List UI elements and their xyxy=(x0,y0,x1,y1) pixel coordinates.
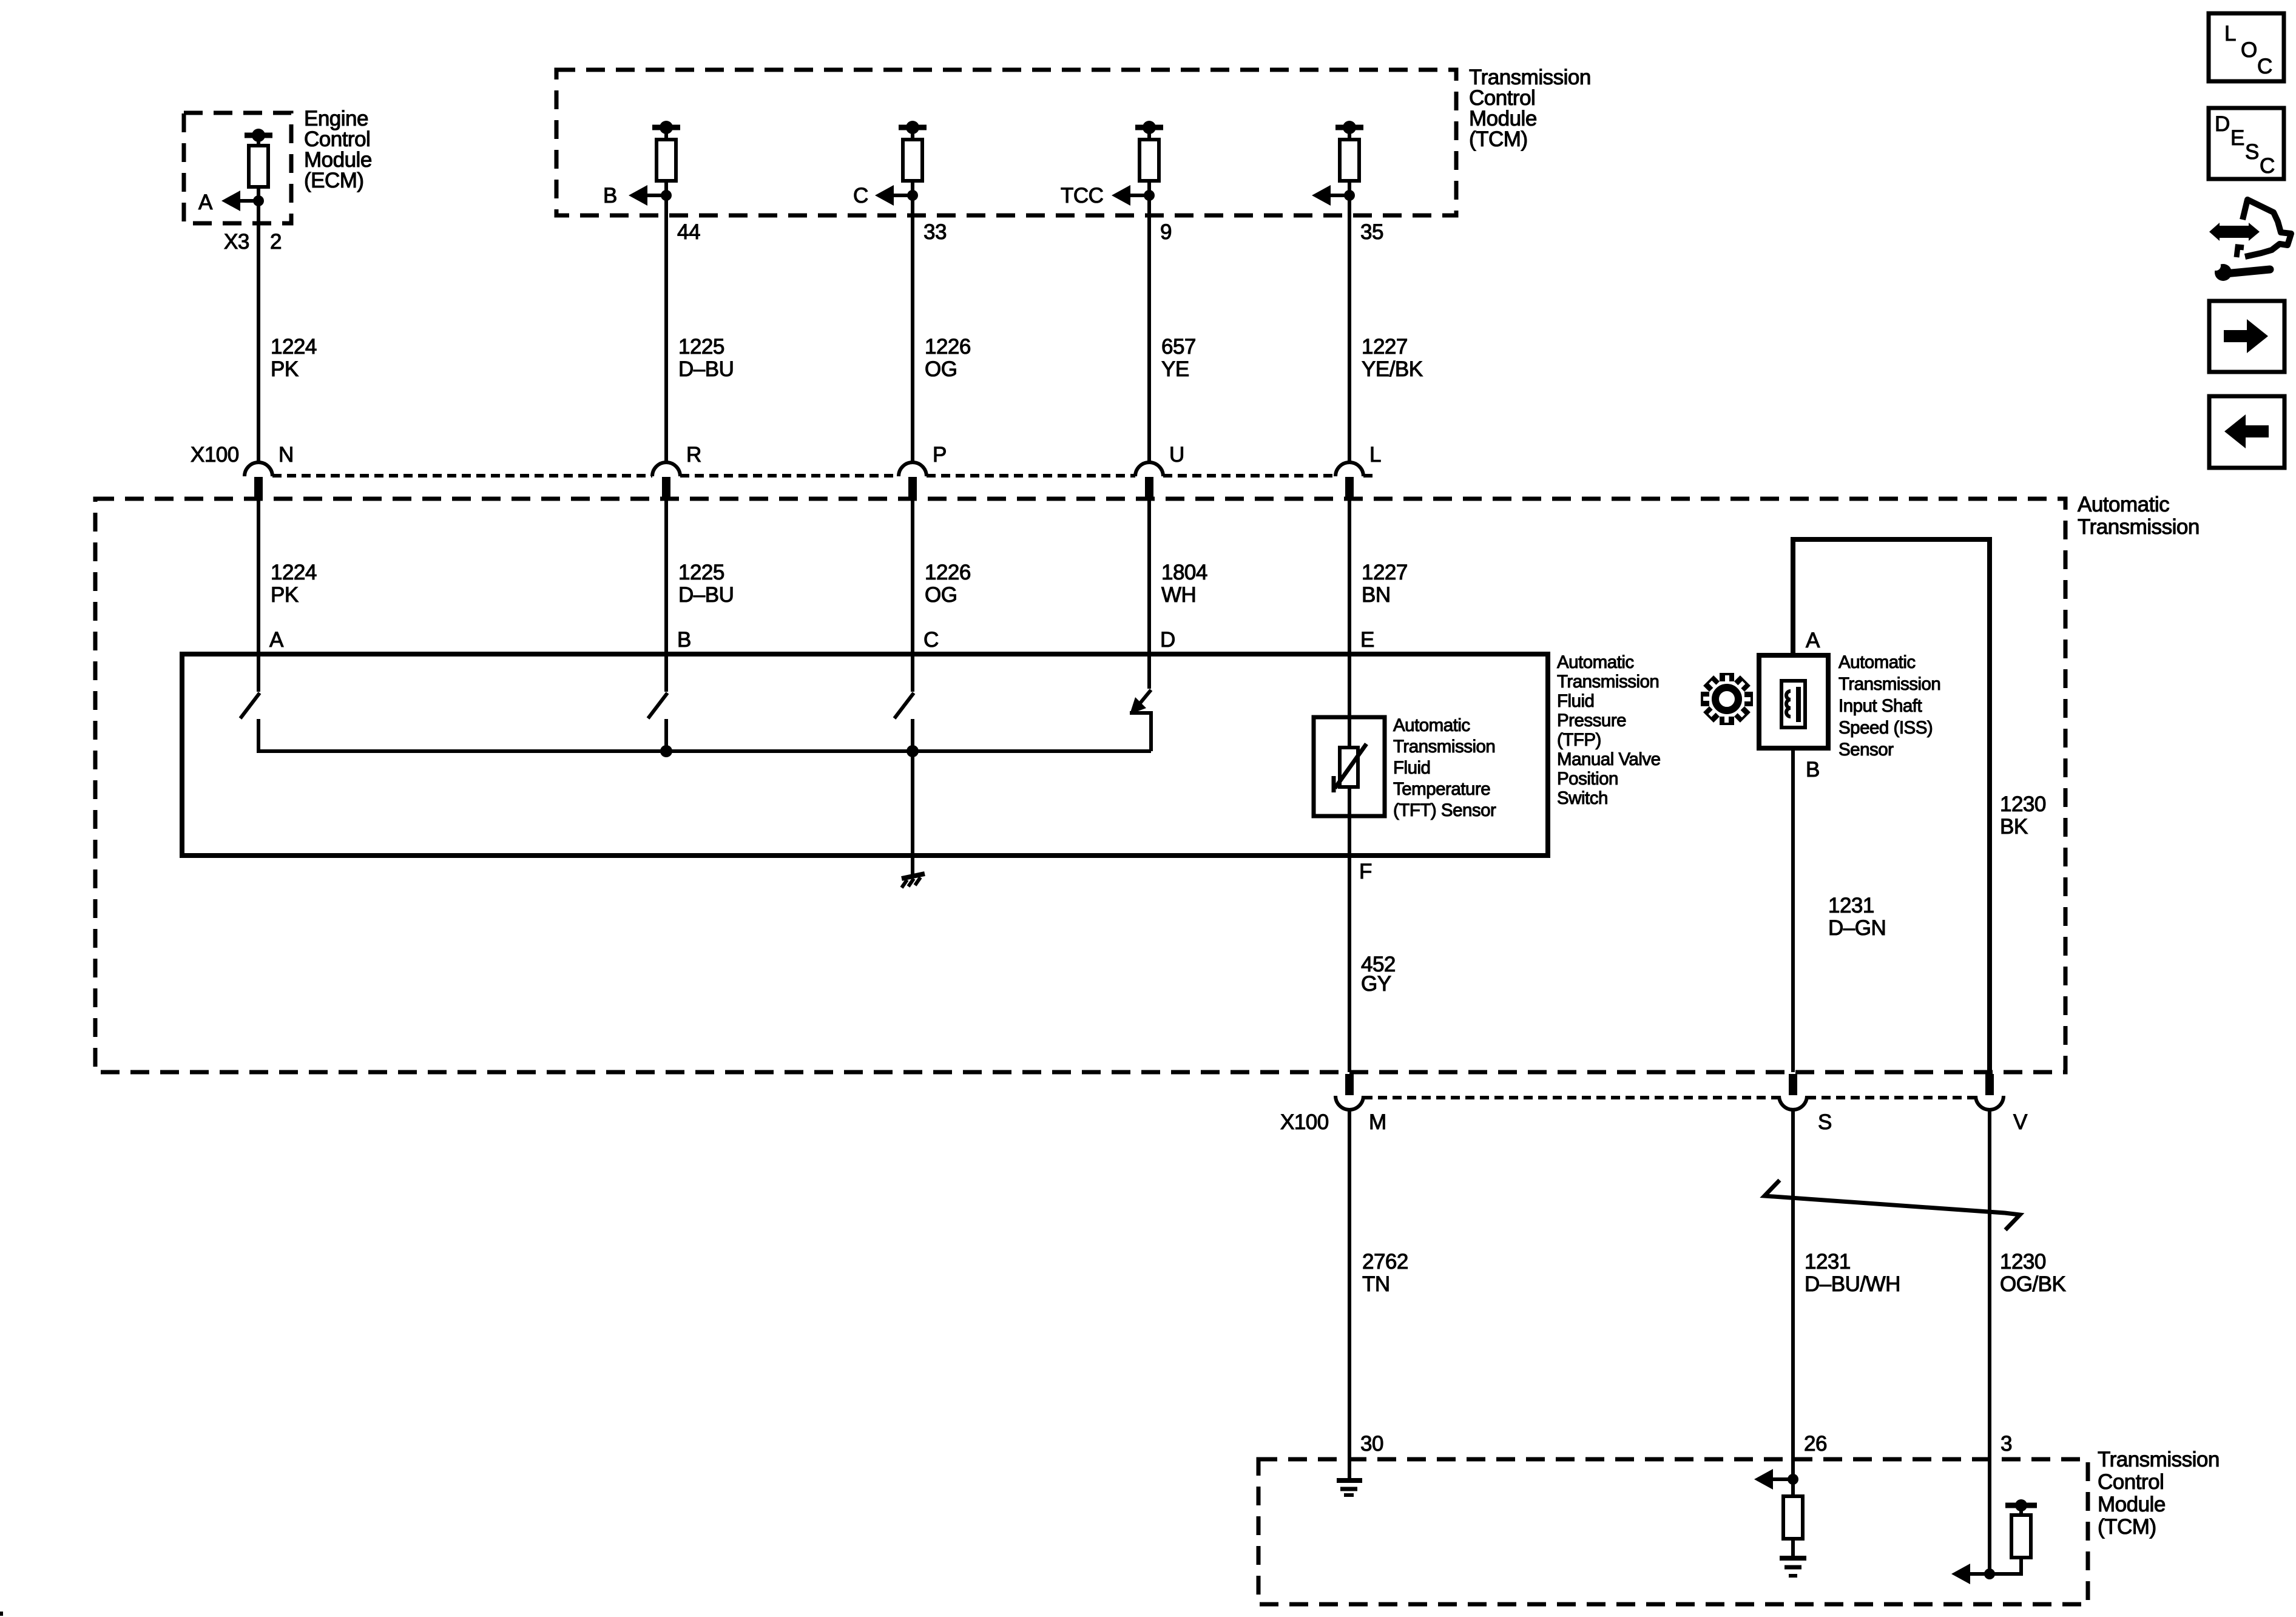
svg-text:C: C xyxy=(2260,154,2275,178)
svg-text:Fluid: Fluid xyxy=(1557,691,1594,711)
svg-text:TCC: TCC xyxy=(1061,184,1103,208)
svg-text:1230: 1230 xyxy=(2000,792,2046,816)
svg-text:B: B xyxy=(677,628,691,652)
wire: resistor down to X100 (TCC) xyxy=(1147,181,1151,462)
wire: into transmission at x=1098 xyxy=(664,498,668,692)
thermistor element (TFT) xyxy=(1340,748,1358,787)
svg-text:A: A xyxy=(1806,629,1820,652)
node: junction dot at pin 3 xyxy=(1984,1568,1995,1579)
switch lower contact (pin A) xyxy=(257,719,260,753)
svg-text:X3: X3 xyxy=(224,230,249,254)
connector X100 terminal U: arc xyxy=(1135,462,1163,476)
resistor R-ECM xyxy=(249,146,268,187)
svg-text:Input Shaft: Input Shaft xyxy=(1838,696,1922,716)
node: bus junction at C xyxy=(907,745,919,757)
svg-text:X100: X100 xyxy=(1280,1110,1329,1134)
svg-text:D–GN: D–GN xyxy=(1828,916,1886,940)
connector X100 terminal P: arc xyxy=(899,462,927,476)
svg-text:OG: OG xyxy=(925,357,957,381)
svg-text:Control: Control xyxy=(2098,1470,2164,1494)
svg-text:1225: 1225 xyxy=(678,335,724,359)
thermistor diagonal stroke xyxy=(1335,744,1366,788)
wire: switch common bus xyxy=(258,749,1151,753)
svg-text:1226: 1226 xyxy=(925,335,971,359)
svg-text:(TFT) Sensor: (TFT) Sensor xyxy=(1393,800,1496,820)
wire: resistor down to X100 (B) xyxy=(664,181,668,462)
svg-text:P: P xyxy=(933,443,947,467)
wire: X100 dotted connector line (bottom) xyxy=(1363,1096,1779,1099)
wire: bar to resistor (TCC) xyxy=(1147,130,1151,140)
arrow (B, pointing left) xyxy=(629,185,647,206)
svg-text:PK: PK xyxy=(271,357,299,381)
node: junction dot (B) xyxy=(661,190,672,201)
wire: 2762 TN (M down to TCM) xyxy=(1348,1110,1351,1479)
svg-text:OG/BK: OG/BK xyxy=(2000,1272,2066,1296)
svg-text:O: O xyxy=(2241,38,2257,62)
connector X100 terminal N: arc xyxy=(245,462,272,476)
wire: E circuit down through TFP box xyxy=(1348,498,1351,1072)
ISS pickup coil squiggle xyxy=(1786,691,1791,717)
svg-text:M: M xyxy=(1369,1110,1386,1134)
svg-text:Transmission: Transmission xyxy=(1393,737,1495,757)
svg-text:V: V xyxy=(2013,1110,2028,1134)
wire: resistor to ground (pin 26) xyxy=(1791,1539,1795,1557)
svg-text:U: U xyxy=(1169,443,1184,467)
node: junction dot (TCC) xyxy=(1144,190,1155,201)
svg-text:Module: Module xyxy=(2098,1493,2166,1516)
svg-text:Transmission: Transmission xyxy=(1838,674,1940,694)
svg-text:A: A xyxy=(269,628,284,652)
connector X100 terminal V: pin xyxy=(1985,1074,1994,1095)
resistor (B driver in TCM) xyxy=(657,140,676,181)
node: junction dot on ECM wire xyxy=(253,195,264,206)
connector X100 terminal R: pin xyxy=(662,477,670,498)
connector X100 terminal L: arc xyxy=(1335,462,1363,476)
icon: back arrow xyxy=(2224,414,2269,448)
svg-text:C: C xyxy=(923,628,939,652)
svg-text:Transmission: Transmission xyxy=(2098,1448,2220,1471)
svg-text:GY: GY xyxy=(1361,972,1391,996)
resistor (TCC driver in TCM) xyxy=(1140,140,1159,181)
icon box: back arrow xyxy=(2209,396,2284,468)
svg-text:Switch: Switch xyxy=(1557,788,1608,808)
svg-text:OG: OG xyxy=(925,583,957,607)
icon: gear (input shaft) xyxy=(1701,673,1753,725)
svg-text:1227: 1227 xyxy=(1362,335,1408,359)
artifact mark bottom-left corner xyxy=(0,1612,3,1616)
svg-text:Temperature: Temperature xyxy=(1393,779,1490,799)
svg-text:(TFP): (TFP) xyxy=(1557,730,1601,750)
svg-text:2: 2 xyxy=(270,230,282,254)
connector X100 terminal M: pin xyxy=(1345,1074,1354,1095)
svg-text:Speed (ISS): Speed (ISS) xyxy=(1838,718,1933,738)
icon: service tool (arrows and wrench) xyxy=(2209,223,2260,241)
svg-text:1231: 1231 xyxy=(1828,894,1874,917)
svg-text:N: N xyxy=(279,443,294,467)
wire: into transmission at x=1504 xyxy=(911,498,914,692)
svg-text:L: L xyxy=(2224,22,2236,46)
component box: TFT sensor xyxy=(1314,717,1385,816)
wire: resistor down to X100 (C) xyxy=(911,181,914,462)
wire: C common down to ground xyxy=(911,751,914,874)
svg-text:1804: 1804 xyxy=(1161,561,1207,584)
icon box: forward arrow xyxy=(2209,301,2284,372)
svg-text:3: 3 xyxy=(2001,1432,2012,1456)
arrow (TCC, pointing left) xyxy=(1112,185,1130,206)
ground: earth ground for pin 26 xyxy=(1780,1556,1806,1561)
connector X100 terminal L: pin xyxy=(1345,477,1354,498)
wire: resistor down to X100 (TCC-feed) xyxy=(1348,181,1351,462)
resistor (pin 26 pull in TCM) xyxy=(1783,1496,1803,1539)
svg-text:Automatic: Automatic xyxy=(1557,652,1634,672)
svg-text:Automatic: Automatic xyxy=(1393,715,1470,735)
svg-text:44: 44 xyxy=(677,220,700,244)
component box: ISS sensor xyxy=(1759,655,1828,748)
arrow at pin 26 (pointing left) xyxy=(1754,1469,1773,1490)
connector X100 terminal P: pin xyxy=(908,477,917,498)
svg-text:E: E xyxy=(1360,628,1374,652)
svg-text:1230: 1230 xyxy=(2000,1250,2046,1274)
switch lower contact (pin B) xyxy=(664,719,668,753)
resistor (TCC-feed driver in TCM) xyxy=(1340,140,1359,181)
node: junction dot (TCC-feed) xyxy=(1344,190,1355,201)
svg-text:F: F xyxy=(1359,860,1372,883)
wire: ISS pin B down to X100 S xyxy=(1791,748,1795,1072)
svg-text:S: S xyxy=(2245,140,2259,164)
svg-text:Transmission: Transmission xyxy=(1557,672,1659,692)
svg-text:1225: 1225 xyxy=(678,561,724,584)
svg-text:(TCM): (TCM) xyxy=(2098,1515,2156,1539)
wire: bar to resistor (B) xyxy=(664,130,668,140)
switch lower contact (pin D) xyxy=(1130,713,1151,751)
twisted-pair crossover symbol xyxy=(1764,1180,2020,1230)
svg-text:D: D xyxy=(2215,112,2230,136)
connector X100 terminal U: pin xyxy=(1145,477,1153,498)
resistor R-ECM top bar with junction dot xyxy=(245,133,272,138)
module box: Transmission Control Module (TCM) top, dashed xyxy=(556,70,1456,215)
arrow (C, pointing left) xyxy=(875,185,894,206)
module box: Engine Control Module (ECM), dashed xyxy=(184,113,291,223)
connector X100 terminal R: arc xyxy=(652,462,680,476)
svg-text:1224: 1224 xyxy=(271,335,317,359)
resistor top bar with dot (C circuit) xyxy=(899,125,927,130)
svg-text:A: A xyxy=(198,191,213,214)
resistor top bar with dot (TCC-feed circuit) xyxy=(1335,125,1363,130)
resistor top bar with dot (TCC circuit) xyxy=(1135,125,1163,130)
wire: bar to resistor (C) xyxy=(911,130,914,140)
svg-text:S: S xyxy=(1818,1110,1832,1134)
arrow (TCC-feed, pointing left) xyxy=(1312,185,1331,206)
resistor (pin 3 pull in TCM) xyxy=(2011,1515,2031,1558)
module box: Automatic Transmission, dashed xyxy=(95,499,2065,1072)
svg-text:Pressure: Pressure xyxy=(1557,711,1626,731)
ISS pickup element box xyxy=(1781,681,1805,727)
svg-text:657: 657 xyxy=(1161,335,1196,359)
wire: into transmission at x=1894 xyxy=(1147,498,1151,689)
svg-text:D–BU/WH: D–BU/WH xyxy=(1805,1272,1900,1296)
resistor (C driver in TCM) xyxy=(903,140,922,181)
wire: into transmission at x=426 xyxy=(257,498,260,692)
ground: chassis ground below TFP switch xyxy=(902,874,925,879)
svg-text:9: 9 xyxy=(1160,220,1172,244)
connector X100 terminal V: arc xyxy=(1976,1096,2004,1110)
svg-text:YE: YE xyxy=(1161,357,1189,381)
wire: ISS loop (pin A up and over to 1230 BK) xyxy=(1793,539,1990,1072)
node: bus junction at B xyxy=(660,745,672,757)
connector X100 terminal S: arc xyxy=(1779,1096,1807,1110)
wire: bar to resistor (pin 3) xyxy=(2019,1508,2023,1515)
svg-text:Automatic: Automatic xyxy=(2078,493,2169,516)
svg-text:D–BU: D–BU xyxy=(678,357,734,381)
ISS pickup bar xyxy=(1796,687,1801,722)
svg-text:(TCM): (TCM) xyxy=(1469,127,1528,151)
svg-text:Position: Position xyxy=(1557,769,1618,789)
node: junction dot (C) xyxy=(907,190,918,201)
svg-text:Transmission: Transmission xyxy=(2078,515,2200,539)
svg-text:R: R xyxy=(686,443,701,467)
icon box: LOC xyxy=(2209,13,2284,81)
svg-text:1227: 1227 xyxy=(1362,561,1408,584)
svg-text:WH: WH xyxy=(1161,583,1196,607)
resistor top bar with dot (pin 3 pull-up) xyxy=(2005,1503,2037,1508)
switch blade (pin C) xyxy=(894,693,914,718)
svg-text:(ECM): (ECM) xyxy=(304,169,364,192)
svg-text:C: C xyxy=(853,184,868,208)
icon: forward arrow xyxy=(2224,319,2268,353)
svg-text:2762: 2762 xyxy=(1362,1250,1408,1274)
arrow A (to pin A, pointing left) xyxy=(221,191,240,211)
connector X100 terminal S: pin xyxy=(1789,1074,1797,1095)
svg-text:Manual Valve: Manual Valve xyxy=(1557,749,1661,769)
svg-text:Automatic: Automatic xyxy=(1838,652,1916,672)
svg-text:TN: TN xyxy=(1362,1272,1390,1296)
svg-text:1226: 1226 xyxy=(925,561,971,584)
switch lower contact (pin C) xyxy=(911,719,914,753)
svg-text:B: B xyxy=(603,184,617,208)
wire: bar to resistor (TCC-feed) xyxy=(1348,130,1351,140)
connector X100 terminal N: pin xyxy=(254,477,263,498)
svg-text:C: C xyxy=(2257,55,2272,78)
svg-text:35: 35 xyxy=(1360,220,1383,244)
wire: resistor elbow to pin 3 node xyxy=(1990,1558,2021,1574)
wire: 1230 OG/BK (V down to TCM) xyxy=(1988,1110,1991,1574)
node: junction dot at pin 26 xyxy=(1788,1474,1798,1485)
svg-text:X100: X100 xyxy=(191,443,239,467)
svg-text:B: B xyxy=(1806,758,1820,781)
icon box: DESC xyxy=(2209,108,2284,179)
module box: Transmission Control Module (TCM) bottom, dashed xyxy=(1258,1459,2088,1604)
svg-text:D–BU: D–BU xyxy=(678,583,734,607)
svg-text:PK: PK xyxy=(271,583,299,607)
svg-text:1224: 1224 xyxy=(271,561,317,584)
resistor top bar with dot (B circuit) xyxy=(652,125,680,130)
svg-text:D: D xyxy=(1160,628,1175,652)
switch blade (pin B) xyxy=(648,693,667,718)
wire: X100 dotted connector line (top) xyxy=(272,474,652,478)
component box: TFP Manual Valve Position Switch xyxy=(182,654,1548,856)
svg-text:33: 33 xyxy=(923,220,947,244)
ground: earth ground for pin 30 xyxy=(1337,1478,1362,1483)
arrow at pin 3 (pointing left) xyxy=(1951,1564,1970,1584)
svg-text:BK: BK xyxy=(2000,815,2028,839)
svg-text:1231: 1231 xyxy=(1805,1250,1851,1274)
svg-text:30: 30 xyxy=(1360,1432,1383,1456)
switch blade (pin A) xyxy=(240,693,260,718)
svg-text:Fluid: Fluid xyxy=(1393,758,1430,778)
svg-text:YE/BK: YE/BK xyxy=(1362,357,1423,381)
svg-text:BN: BN xyxy=(1362,583,1391,607)
wire: resistor R-ECM down to X100 pin N xyxy=(257,187,260,462)
thermistor tail stroke xyxy=(1332,776,1336,792)
svg-text:E: E xyxy=(2230,126,2244,150)
svg-text:Sensor: Sensor xyxy=(1838,740,1894,760)
switch blade with arrow (pin D) xyxy=(1140,690,1151,704)
wire: 1231 D-BU/WH (S down to TCM) xyxy=(1791,1110,1795,1496)
connector X100 terminal M: arc xyxy=(1335,1096,1363,1110)
wire: bar to resistor R-ECM xyxy=(257,138,260,146)
svg-text:26: 26 xyxy=(1804,1432,1827,1456)
svg-text:L: L xyxy=(1369,443,1381,467)
